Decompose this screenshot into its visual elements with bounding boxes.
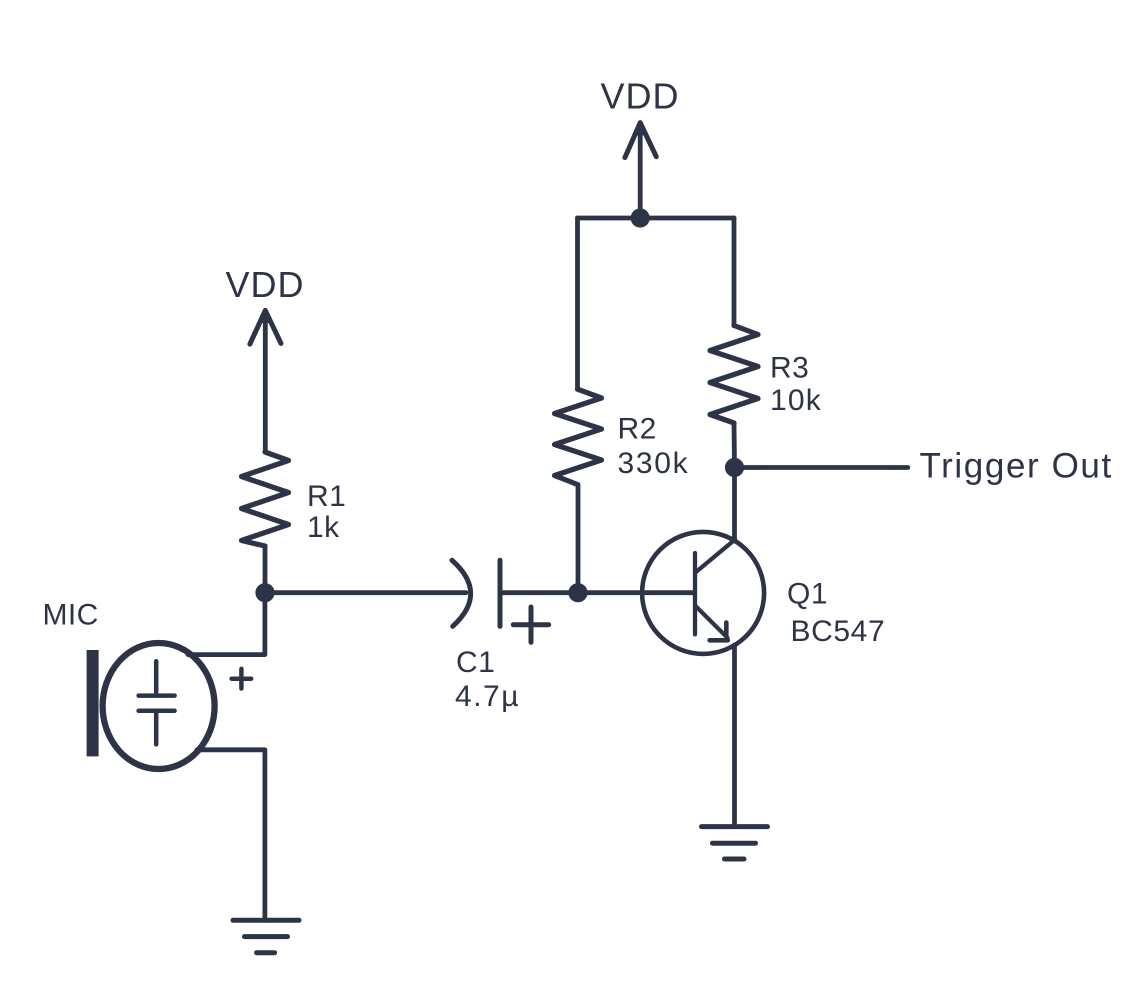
node D collector junction <box>725 458 744 477</box>
transistor Q1 collector diagonal <box>696 540 735 573</box>
polarity + for MIC <box>232 669 252 689</box>
svg-text:R3: R3 <box>770 352 809 385</box>
microphone MIC body circle <box>103 643 215 769</box>
svg-text:10k: 10k <box>770 384 822 417</box>
wire R2 top to VDD rail <box>575 218 580 389</box>
wire emitter down to ground <box>732 645 737 827</box>
ground at emitter <box>702 827 768 859</box>
resistor R1 <box>242 452 289 546</box>
svg-text:R2: R2 <box>618 413 657 446</box>
wire C1 to node B <box>500 590 578 595</box>
wire base node B to Q1 <box>578 590 695 595</box>
wire node B up to R2 <box>576 485 581 593</box>
wire R3 bottom to node D <box>732 423 737 468</box>
transistor Q1 emitter diagonal <box>696 607 728 638</box>
transistor Q1 circle <box>642 532 764 654</box>
wire VDD rail horizontal <box>578 216 735 221</box>
resistor R2 <box>555 389 602 484</box>
svg-text:C1: C1 <box>456 646 495 679</box>
svg-text:4.7µ: 4.7µ <box>455 680 520 713</box>
ground at mic <box>233 920 299 952</box>
microphone MIC internal capsule symbol <box>139 661 175 744</box>
capacitor C1 curved plate <box>452 560 471 626</box>
wire mic top terminal to node A <box>188 593 265 655</box>
svg-text:330k: 330k <box>618 447 690 480</box>
wire mic bottom terminal to ground <box>197 750 265 921</box>
svg-text:Trigger Out: Trigger Out <box>920 446 1113 485</box>
wire R1 bottom to node A <box>263 546 268 593</box>
svg-text:VDD: VDD <box>600 75 679 116</box>
polarity + for C1 <box>513 607 548 642</box>
svg-text:1k: 1k <box>307 511 340 544</box>
node A junction <box>255 583 274 602</box>
resistor R3 <box>710 326 758 424</box>
node C VDD rail junction <box>631 208 650 227</box>
transistor Q1 emitter arrowhead <box>710 623 728 641</box>
microphone MIC back plate bar <box>87 650 99 756</box>
power arrow VDD left <box>250 310 281 452</box>
wire node D to collector <box>732 468 737 542</box>
capacitor C1 straight plate <box>498 560 503 626</box>
wire node D to trigger out <box>735 465 908 470</box>
svg-text:MIC: MIC <box>43 599 99 632</box>
svg-text:BC547: BC547 <box>791 615 886 648</box>
power arrow VDD top <box>625 122 656 218</box>
node B junction <box>568 583 587 602</box>
svg-text:Q1: Q1 <box>787 578 828 611</box>
wire VDD rail to R3 <box>732 218 737 326</box>
transistor Q1 base bar <box>693 553 697 634</box>
svg-text:VDD: VDD <box>225 264 304 305</box>
wire node A to C1 <box>265 590 466 595</box>
svg-text:R1: R1 <box>307 480 346 513</box>
